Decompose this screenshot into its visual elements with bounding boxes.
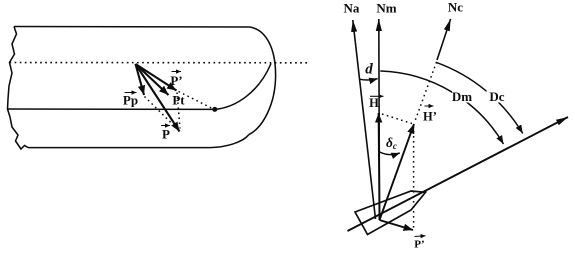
dotted construction P' tip to waterline dot [179,92,213,109]
svg-text:d: d [365,62,373,78]
svg-text:Nm: Nm [376,1,396,16]
axis Nc dotted extension toward H' [415,62,437,121]
vector Pt [136,64,169,95]
label Dc [487,89,508,103]
waterline bow curve [215,64,271,110]
label P' (right) [414,236,425,251]
axis Nc solid segment [437,19,451,60]
deck top line [14,26,250,29]
svg-text:H’: H’ [423,110,437,124]
waterline [8,108,215,110]
svg-text:P: P [162,127,170,142]
angle arc delta-c (Nm to H') [379,152,400,155]
vector P [136,64,180,132]
label Pp [123,93,138,108]
axis Na [353,20,376,219]
svg-text:Na: Na [344,1,360,16]
hull bottom line [28,135,249,148]
dotted flotation axis line [10,62,309,64]
heading line (ship axis) [348,117,569,231]
svg-text:P’: P’ [170,73,182,88]
svg-text:Dm: Dm [452,89,472,104]
label P' (left) [170,72,182,89]
label P [161,126,170,142]
label H [369,96,383,110]
bow outer curve [249,27,276,135]
svg-text:Pp: Pp [123,93,138,108]
dotted line H tip to H' tip [382,114,412,124]
dotted vertical from H' tip to P' tip [413,126,415,230]
vector Pp [136,64,145,95]
svg-text:H: H [369,96,379,110]
node: dot on waterline [212,107,217,112]
svg-text:Nc: Nc [448,0,463,15]
arc Dc (Nc to heading) [436,62,523,133]
label Dm [452,89,474,103]
torn left edge of hull [8,27,29,150]
ship hull outline [355,191,426,235]
dotted construction P' tip to P tip [177,93,180,129]
vector H along Nm [378,113,381,220]
svg-text:Pt: Pt [172,93,185,108]
svg-text:Dc: Dc [489,89,504,104]
label H' [423,106,437,124]
dotted construction Pp tip to P tip [145,97,180,131]
axis Nm [378,19,381,220]
vector P' (right) [380,220,414,230]
svg-text:P’: P’ [414,239,424,251]
vector P' (left) [136,64,177,91]
angle arc d (Na to Nm) [359,79,377,80]
vector H' [380,124,415,220]
arc Dm (Nm to heading) [380,71,503,144]
